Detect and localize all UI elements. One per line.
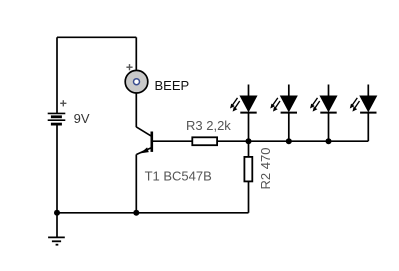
node R3/R2/LED1 junction <box>246 138 252 144</box>
wire R2 to bottom rail <box>248 181 250 212</box>
wire top rail <box>57 36 136 38</box>
transistor T1 emitter lead <box>136 148 151 155</box>
wire LED cathode rail <box>249 140 369 142</box>
wire ground stub <box>56 213 58 237</box>
LED D3 triangle <box>320 96 336 111</box>
transistor T1 base bar <box>151 132 154 152</box>
battery BT1 <box>48 113 66 124</box>
LED D4 light arrow 1 <box>352 98 357 105</box>
LED D4 triangle <box>360 96 376 111</box>
LED D1 <box>230 85 257 142</box>
buzzer inner terminal <box>134 79 140 85</box>
LED D2 <box>270 85 297 142</box>
wire D4 cathode to rail <box>367 113 369 142</box>
svg-text:BEEP: BEEP <box>155 78 190 93</box>
LED D2 light arrow 1 <box>273 98 278 105</box>
LED D2 light arrow 2 <box>275 101 280 108</box>
wire left vertical from top rail to battery <box>56 37 58 113</box>
node LED2 junction <box>286 138 292 144</box>
LED D4 <box>350 85 377 142</box>
transistor T1 emitter arrow <box>140 147 149 153</box>
wire anode stub D2 <box>288 85 290 97</box>
LED D2 cathode bar <box>281 112 297 114</box>
svg-text:R3 2,2k: R3 2,2k <box>186 118 231 133</box>
resistor R3 <box>192 137 217 145</box>
buzzer plus sign <box>126 64 132 70</box>
wire buzzer to collector <box>135 94 137 128</box>
battery BT1 plus sign <box>60 100 66 106</box>
svg-text:T1 BC547B: T1 BC547B <box>145 168 212 183</box>
wire top rail to buzzer <box>135 37 137 70</box>
wire D3 cathode to rail <box>328 113 330 142</box>
LED D1 light arrow 2 <box>235 101 240 108</box>
LED D2 triangle <box>281 96 297 111</box>
node emitter/bottom-rail junction <box>133 210 139 216</box>
svg-text:9V: 9V <box>74 111 90 126</box>
wire R3 to junction node <box>217 140 248 142</box>
resistor R2 <box>244 157 252 182</box>
wire anode stub D3 <box>328 85 330 97</box>
wire anode stub D1 <box>248 85 250 97</box>
wire D2 cathode to rail <box>288 113 290 142</box>
wire junction to R2 <box>248 141 250 157</box>
wire D1 cathode to rail <box>248 113 250 142</box>
LED D3 cathode bar <box>320 112 336 114</box>
wire anode stub D4 <box>367 85 369 97</box>
svg-text:R2 470: R2 470 <box>258 148 273 190</box>
transistor T1 collector lead <box>136 127 151 136</box>
LED D3 light arrow 2 <box>315 101 320 108</box>
wire battery to bottom rail <box>56 125 58 213</box>
wire bottom rail <box>57 212 249 214</box>
wire base to R3 <box>153 140 192 142</box>
LED D4 cathode bar <box>360 112 376 114</box>
LED D3 <box>310 85 337 142</box>
ground <box>48 237 65 244</box>
LED D1 cathode bar <box>240 112 256 114</box>
LED D3 light arrow 1 <box>313 98 318 105</box>
wire emitter to bottom rail <box>135 154 137 212</box>
LED D1 triangle <box>240 96 256 111</box>
LED D4 light arrow 2 <box>355 101 360 108</box>
node battery/ground junction <box>54 210 60 216</box>
buzzer BEEP <box>125 70 148 93</box>
LED D1 light arrow 1 <box>233 98 238 105</box>
node LED3 junction <box>326 138 332 144</box>
